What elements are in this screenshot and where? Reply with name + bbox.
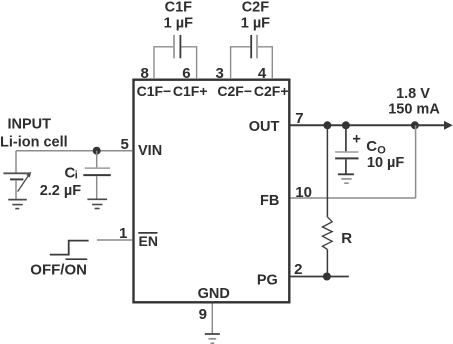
wire R bottom — [326, 249, 328, 276]
pin 2 — [294, 261, 302, 278]
pin 9 — [199, 306, 207, 323]
wire feedback vertical — [415, 125, 417, 198]
svg-text:C2F: C2F — [242, 0, 270, 15]
pin label C2F- — [217, 83, 252, 99]
svg-text:VIN: VIN — [138, 143, 162, 159]
node 1.8 V label — [396, 86, 430, 102]
pin label PG — [257, 272, 278, 288]
svg-text:1 µF: 1 µF — [241, 15, 270, 31]
pin 10 — [295, 184, 312, 201]
wire C1F left leg — [154, 47, 173, 79]
ground — [8, 200, 27, 209]
node OFF/ON label — [30, 259, 87, 278]
pin label OUT — [249, 119, 280, 135]
value label R — [341, 230, 352, 247]
svg-text:C: C — [366, 138, 377, 155]
svg-text:OFF/ON: OFF/ON — [30, 261, 87, 278]
pin 7 — [295, 110, 303, 127]
wire C2F right leg — [258, 47, 272, 79]
svg-text:5: 5 — [120, 136, 128, 153]
wire — [96, 151, 98, 168]
svg-text:10 µF: 10 µF — [367, 155, 405, 171]
value label Ci — [65, 165, 78, 182]
pin label C1F- — [137, 83, 172, 99]
capacitor Ci — [83, 168, 111, 175]
svg-text:PG: PG — [257, 272, 278, 288]
svg-text:EN: EN — [139, 233, 158, 249]
output arrow — [444, 121, 453, 130]
ground — [338, 174, 354, 183]
ground — [205, 334, 220, 343]
wire C2F left leg — [231, 47, 251, 79]
svg-text:INPUT: INPUT — [8, 117, 52, 133]
value label 10 uF — [367, 155, 405, 171]
capacitor C2F — [251, 35, 257, 58]
svg-text:C1F+: C1F+ — [173, 83, 208, 99]
wire — [97, 239, 132, 241]
signal OFF/ON step — [50, 241, 89, 255]
svg-text:C2F−: C2F− — [217, 83, 252, 99]
svg-text:C2F+: C2F+ — [254, 83, 289, 99]
svg-text:+: + — [352, 131, 360, 147]
node dot PG — [323, 273, 331, 281]
svg-text:150 mA: 150 mA — [388, 102, 440, 118]
capacitor Co — [335, 152, 358, 158]
node A — [93, 147, 101, 155]
wire GND pin — [211, 304, 213, 334]
svg-text:9: 9 — [199, 306, 207, 323]
node dot R branch — [323, 121, 331, 129]
svg-text:C1F: C1F — [165, 0, 193, 15]
capacitor C1F — [174, 35, 180, 58]
node dot FB branch — [411, 121, 419, 129]
pin 5 — [120, 136, 128, 153]
wire — [345, 159, 347, 173]
wire — [345, 125, 347, 151]
svg-text:i: i — [75, 170, 78, 182]
polarity + — [352, 131, 360, 147]
value label C1F — [165, 0, 193, 15]
svg-text:1 µF: 1 µF — [164, 15, 193, 31]
wire C1F right leg — [181, 47, 196, 79]
value label 2.2 uF — [40, 183, 82, 199]
svg-text:Li-ion cell: Li-ion cell — [0, 135, 68, 151]
ground — [87, 199, 107, 208]
pin 1 — [119, 225, 127, 242]
pin label FB — [260, 193, 279, 209]
svg-text:1.8 V: 1.8 V — [396, 86, 430, 102]
svg-text:6: 6 — [182, 65, 190, 82]
svg-text:1: 1 — [119, 225, 127, 242]
resistor R — [322, 217, 332, 250]
svg-text:2.2 µF: 2.2 µF — [40, 183, 82, 199]
pin label C1F+ — [173, 83, 208, 99]
node dot Co branch — [342, 121, 350, 129]
wire — [16, 150, 132, 152]
pin label VIN — [138, 143, 162, 159]
wire — [15, 180, 17, 199]
pin 6 — [182, 65, 190, 82]
pin 3 — [216, 65, 224, 82]
svg-text:R: R — [341, 230, 352, 247]
pin label C2F+ — [254, 83, 289, 99]
pin label EN — [138, 233, 158, 249]
node 150 mA label — [388, 102, 440, 118]
value label Co — [366, 138, 386, 156]
node INPUT label — [8, 117, 52, 133]
wire R top — [326, 125, 328, 217]
svg-text:OUT: OUT — [249, 119, 280, 135]
svg-text:3: 3 — [216, 65, 224, 82]
value label C2F — [242, 0, 270, 15]
value label 1 uF — [241, 15, 270, 31]
value label 1 uF — [164, 15, 193, 31]
svg-text:GND: GND — [198, 286, 230, 302]
battery B1 — [3, 172, 31, 192]
wire OUT — [291, 124, 445, 126]
node Li-ion cell label — [0, 135, 68, 151]
svg-text:4: 4 — [258, 65, 267, 82]
wire — [96, 176, 98, 199]
wire — [15, 151, 17, 173]
pin label GND — [198, 286, 230, 302]
svg-text:8: 8 — [140, 65, 148, 82]
svg-text:FB: FB — [260, 193, 279, 209]
svg-text:C1F−: C1F− — [137, 83, 172, 99]
pin 8 — [140, 65, 148, 82]
IC U1 charge pump — [134, 80, 290, 303]
wire FB — [291, 197, 416, 199]
pin 4 — [258, 65, 267, 82]
wire PG — [291, 276, 349, 278]
